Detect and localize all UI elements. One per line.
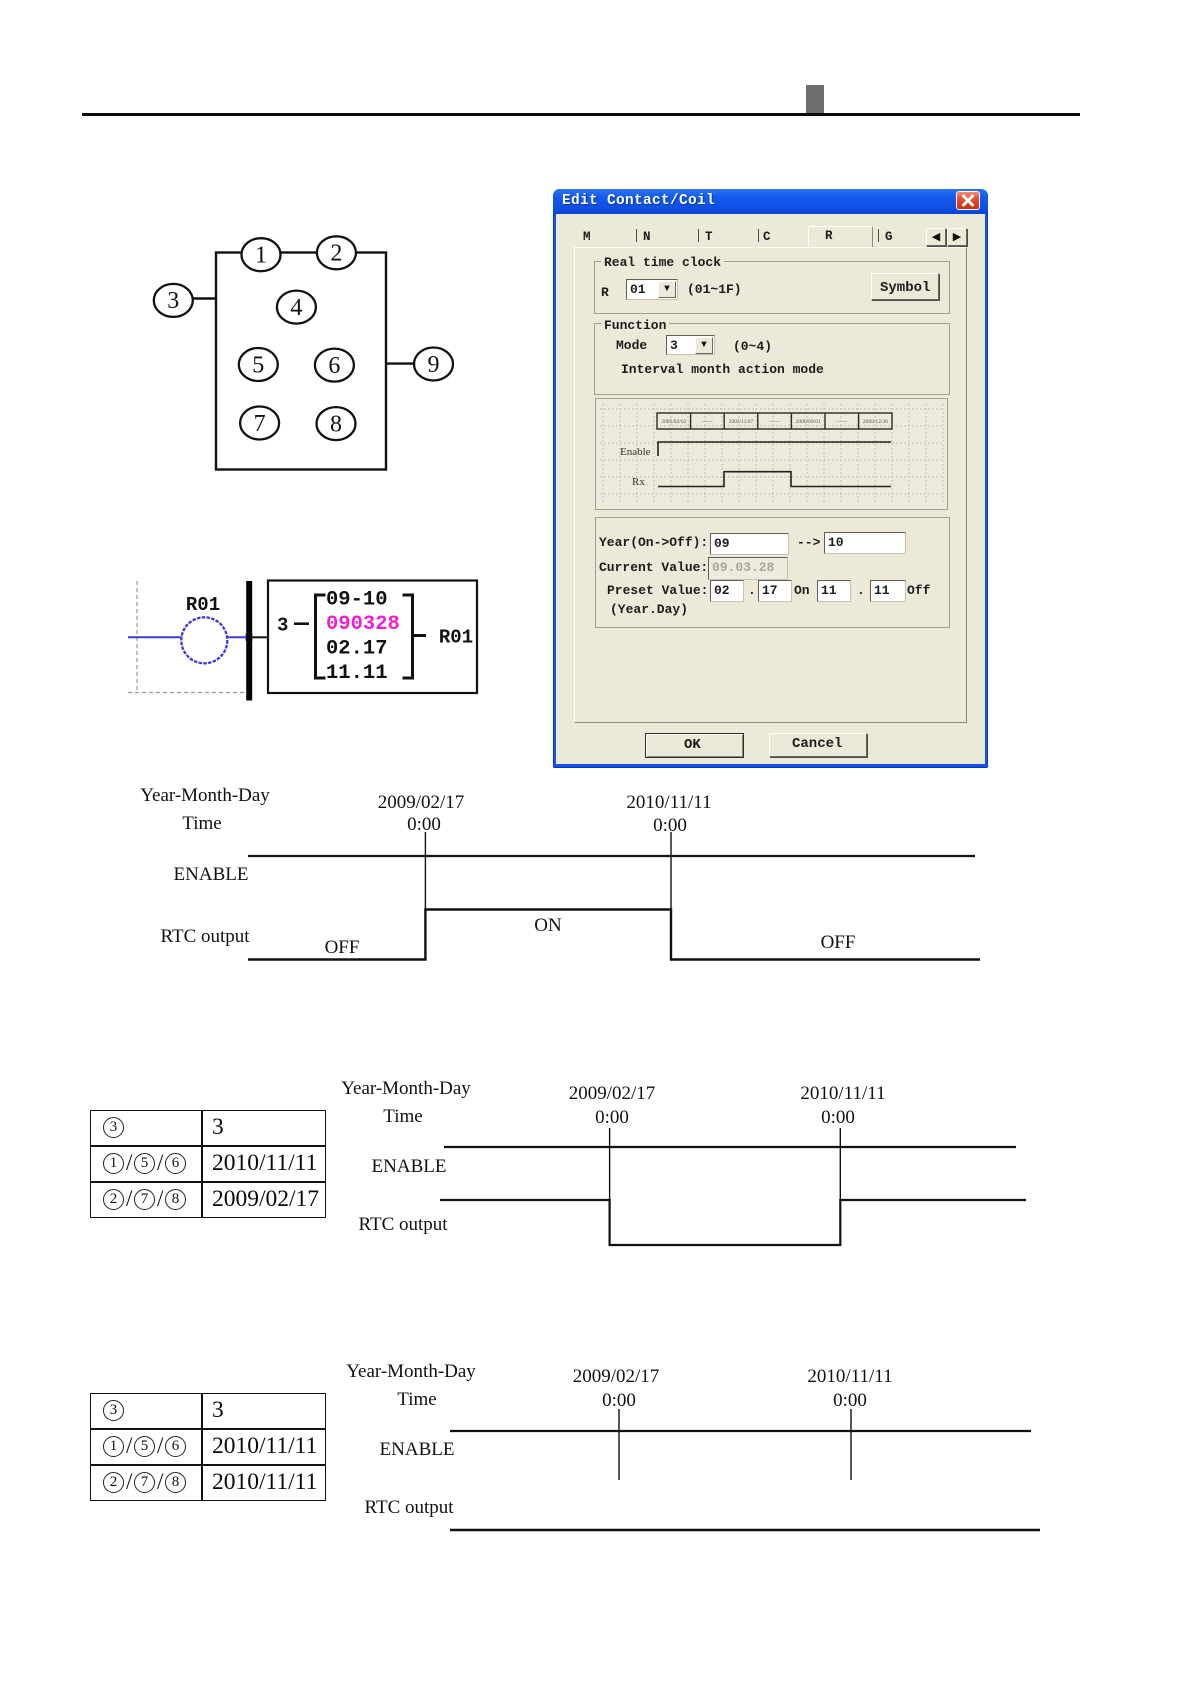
Current Value row (599, 561, 708, 575)
svg-text:2005/02/02: 2005/02/02 (661, 419, 686, 425)
header rule (82, 113, 1080, 116)
close button (956, 191, 980, 210)
svg-text:Rx: Rx (632, 476, 645, 488)
rtc output waveform (440, 1200, 1026, 1245)
wire pin9 (386, 362, 414, 364)
selected tab R (808, 226, 873, 248)
svg-text:0:00: 0:00 (821, 1107, 855, 1128)
right bracket (403, 595, 413, 678)
event vertical 2 (850, 1409, 852, 1480)
row 2: on date (103, 1436, 124, 1457)
svg-text:Time: Time (383, 1106, 422, 1127)
ladder diagram (120, 575, 490, 705)
enable line (248, 855, 975, 857)
row divider 1 (90, 1428, 326, 1430)
row 3: off date (103, 1189, 124, 1210)
timing diagram 2 (340, 1080, 1040, 1255)
svg-text:Time: Time (182, 813, 221, 834)
power rail bar (246, 581, 252, 701)
svg-text:2: 2 (330, 241, 342, 267)
event vertical 1 (609, 1128, 611, 1245)
svg-text:0:00: 0:00 (407, 814, 441, 835)
pin circle 9 (414, 348, 453, 381)
svg-text:0:00: 0:00 (833, 1390, 867, 1411)
svg-text:2009/12/30: 2009/12/30 (863, 419, 888, 425)
svg-text:5: 5 (252, 352, 264, 378)
body rectangle (216, 253, 386, 470)
svg-text:2009/02/17: 2009/02/17 (573, 1366, 660, 1387)
group: Real time clock (594, 261, 950, 314)
enable line (450, 1430, 1031, 1432)
timing preview grid panel (595, 398, 948, 510)
table frame (90, 1393, 326, 1501)
svg-text:2006/09/01: 2006/09/01 (796, 419, 821, 425)
svg-text:——: —— (835, 419, 848, 425)
svg-text:OFF: OFF (325, 937, 360, 958)
timing diagram 1 (130, 780, 1010, 975)
svg-text:09-10: 09-10 (326, 589, 388, 612)
dialog client area (556, 214, 985, 764)
table frame (90, 1110, 326, 1218)
dotted grid (600, 404, 943, 504)
rtc output waveform (248, 910, 980, 960)
pin circle 8 (317, 407, 356, 440)
enable line (444, 1146, 1016, 1148)
row 1: mode 3 (103, 1117, 124, 1138)
row divider 1 (90, 1145, 326, 1147)
row 3: off date (103, 1472, 124, 1493)
svg-text:RTC output: RTC output (358, 1214, 448, 1235)
Cancel button (769, 733, 867, 757)
svg-text:——: —— (701, 419, 714, 425)
svg-text:Time: Time (397, 1389, 436, 1410)
row 2: on date (103, 1153, 124, 1174)
tick to output label (413, 634, 427, 637)
left bracket (316, 595, 326, 678)
mode table 3 (90, 1393, 327, 1502)
pin circle 7 (240, 407, 279, 440)
Preset Value row (607, 584, 708, 598)
mode table 2 (90, 1110, 327, 1219)
svg-text:3: 3 (167, 288, 179, 314)
pin circle 5 (239, 348, 278, 381)
row divider 2 (90, 1464, 326, 1466)
svg-text:Enable: Enable (620, 446, 651, 458)
pin circle 1 (242, 238, 281, 271)
pin circle 3 (154, 284, 193, 317)
pin circle 2 (317, 236, 356, 269)
Enable waveform (658, 442, 891, 456)
svg-text:Year-Month-Day: Year-Month-Day (346, 1363, 476, 1382)
svg-text:Year-Month-Day: Year-Month-Day (140, 785, 270, 806)
svg-text:9: 9 (428, 352, 440, 378)
svg-text:090328: 090328 (326, 613, 400, 636)
svg-text:OFF: OFF (821, 932, 856, 953)
row 1: mode 3 (103, 1400, 124, 1421)
svg-text:2010/11/11: 2010/11/11 (626, 792, 711, 813)
title text (562, 193, 715, 209)
label Mode (616, 339, 647, 353)
fields panel (595, 517, 950, 628)
svg-text:2010/11/11: 2010/11/11 (800, 1083, 885, 1104)
svg-text:ENABLE: ENABLE (372, 1156, 447, 1177)
svg-text:4: 4 (290, 295, 302, 321)
label (0~4) (733, 340, 772, 354)
dash after 3 (294, 622, 309, 625)
svg-text:6: 6 (328, 353, 340, 379)
label (01~1F) (687, 283, 742, 297)
mode description (621, 363, 824, 377)
rtc output line (stays off) (450, 1529, 1040, 1531)
svg-text:0:00: 0:00 (602, 1390, 636, 1411)
svg-text:RTC output: RTC output (160, 926, 250, 947)
svg-text:8: 8 (330, 411, 342, 437)
label R (601, 286, 609, 300)
pin circle 4 (277, 291, 316, 324)
tab scroll left button (926, 228, 946, 246)
header gray marker box (806, 85, 824, 113)
group: Function (594, 323, 950, 395)
(Year.Day) (610, 603, 688, 617)
tab labels (583, 230, 591, 244)
event vertical 2 (839, 1128, 841, 1245)
RTC function block box (268, 581, 477, 694)
wire to function block (252, 636, 268, 638)
dashed guide vertical (136, 581, 138, 693)
timing diagram 3 (345, 1363, 1045, 1538)
svg-text:7: 7 (254, 411, 266, 437)
OK button (default) (645, 733, 744, 758)
svg-text:R01: R01 (186, 594, 220, 616)
svg-text:2009/02/17: 2009/02/17 (569, 1083, 656, 1104)
Year(On->Off) row (599, 536, 708, 550)
title bar (553, 189, 988, 214)
tab scroll right button (947, 228, 967, 246)
column divider (201, 1393, 203, 1500)
svg-text:0:00: 0:00 (595, 1107, 629, 1128)
date boxes row (657, 413, 892, 429)
svg-text:Year-Month-Day: Year-Month-Day (341, 1080, 471, 1099)
row divider 2 (90, 1181, 326, 1183)
event vertical 1 (424, 832, 426, 960)
svg-text:2010/11/11: 2010/11/11 (807, 1366, 892, 1387)
svg-text:02.17: 02.17 (326, 638, 388, 661)
column divider (201, 1110, 203, 1217)
combo Mode (666, 335, 715, 355)
dashed guide horizontal (128, 692, 248, 694)
event vertical 1 (618, 1409, 620, 1480)
svg-text:ENABLE: ENABLE (380, 1439, 455, 1460)
svg-text:0:00: 0:00 (653, 815, 687, 836)
tab page panel (574, 247, 967, 723)
pin circle 6 (315, 349, 354, 382)
junction node (246, 634, 253, 641)
combo R number (626, 279, 678, 300)
Symbol button (871, 273, 939, 300)
Rx waveform (658, 472, 891, 487)
coil circle R01 (181, 617, 227, 663)
svg-text:2009/02/17: 2009/02/17 (378, 792, 465, 813)
svg-text:11.11: 11.11 (326, 662, 388, 685)
svg-text:R01: R01 (439, 627, 473, 649)
svg-text:RTC output: RTC output (364, 1497, 454, 1518)
wire pin3 (193, 297, 216, 299)
wire (blue rail) (128, 636, 249, 638)
event vertical 2 (670, 832, 672, 960)
pin layout diagram (120, 228, 465, 488)
svg-text:2005/11/07: 2005/11/07 (729, 419, 754, 425)
svg-text:ENABLE: ENABLE (174, 864, 249, 885)
Edit Contact/Coil dialog (553, 189, 988, 768)
svg-text:3: 3 (277, 615, 288, 637)
svg-text:ON: ON (534, 915, 562, 936)
svg-text:1: 1 (255, 243, 267, 269)
svg-text:——: —— (768, 419, 781, 425)
